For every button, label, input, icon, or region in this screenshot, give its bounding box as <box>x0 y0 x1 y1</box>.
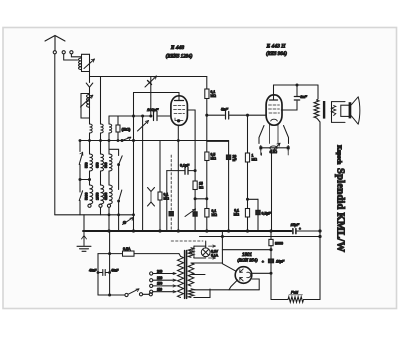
svg-text:6200: 6200 <box>104 192 108 200</box>
coupling arrow chevron <box>86 83 93 87</box>
coil bottom terminals <box>88 204 91 207</box>
svg-text:(RES 964): (RES 964) <box>266 52 287 57</box>
wire L2 to coil bank <box>89 107 91 124</box>
svg-text:0,1A: 0,1A <box>211 254 219 258</box>
svg-text:10μF: 10μF <box>276 260 285 264</box>
svg-text:E 448: E 448 <box>170 45 184 51</box>
wire x109.6 mains2 <box>109 231 111 295</box>
wire 8nF branch <box>281 85 297 110</box>
svg-text:Kapsch: Kapsch <box>336 145 342 165</box>
svg-text:MΩ: MΩ <box>211 157 217 161</box>
wire top feed horizontal y76.5 <box>90 76 207 78</box>
variable cap arrow C1 <box>145 76 157 87</box>
wire x258 <box>257 199 259 231</box>
svg-text:40nF: 40nF <box>89 269 97 273</box>
svg-text:kΩ: kΩ <box>199 186 204 190</box>
wire col gaps row2-row3 <box>90 171 110 185</box>
resistor on x160 <box>158 192 162 200</box>
wire y198.8 link <box>195 198 207 200</box>
svg-text:MΩ: MΩ <box>234 213 240 217</box>
wire terminal stubs <box>64 54 82 60</box>
speaker horn flare <box>351 97 360 124</box>
variable arrow L2 <box>81 95 93 107</box>
svg-text:240: 240 <box>157 269 163 273</box>
wire L1 top to spine <box>82 54 90 58</box>
capacitor 0,1uF cathode <box>185 167 188 174</box>
svg-text:8000: 8000 <box>275 242 283 246</box>
capacitor 8nF <box>294 97 299 101</box>
node dots x133.5 <box>133 115 135 117</box>
wire second bus y236.5 <box>200 236 321 238</box>
wire V2 plate top <box>274 85 319 95</box>
wire y115 coupling line <box>207 114 266 116</box>
svg-text:6 kΩ: 6 kΩ <box>270 150 278 154</box>
coil bank row2 <box>90 154 93 171</box>
variable cap arrow C2 <box>138 121 149 132</box>
wire y141.3 <box>207 140 229 142</box>
wire grid line y92.5 <box>134 93 180 97</box>
primary taps <box>153 274 176 292</box>
resistor 8000 <box>270 232 272 300</box>
wire x160 screen divider <box>159 141 161 232</box>
svg-text:0,5A: 0,5A <box>123 247 131 251</box>
wire col2 riser <box>100 77 102 125</box>
svg-text:Feld: Feld <box>291 291 299 295</box>
wire ground drop <box>83 215 85 231</box>
padder element chevrons <box>148 188 155 207</box>
svg-text:0,1μF: 0,1μF <box>180 164 190 168</box>
wire x142.6 <box>142 116 144 231</box>
capacitor 15uF electrolytic <box>293 229 296 234</box>
capacitor 0,5uF <box>256 210 260 214</box>
capacitor 100pF <box>154 112 158 121</box>
capacitor 10nF <box>226 155 230 160</box>
potentiometer 6k hum <box>261 147 288 149</box>
mains switch <box>98 294 125 296</box>
coil bank row1 <box>90 124 93 133</box>
svg-text:900: 900 <box>104 162 108 168</box>
svg-text:MΩ: MΩ <box>212 213 218 217</box>
fuse 0,5A <box>123 251 135 256</box>
resistor chain x207 top <box>206 77 208 90</box>
svg-text:40nF: 40nF <box>111 269 119 273</box>
secondary HT <box>188 263 194 286</box>
svg-text:(RGN 354): (RGN 354) <box>237 258 258 263</box>
wave switch chain x118.6 <box>109 149 119 231</box>
antenna terminal circle <box>53 51 56 54</box>
svg-text:8nF: 8nF <box>300 95 307 99</box>
antenna <box>45 36 65 51</box>
svg-text:5nF: 5nF <box>221 107 228 112</box>
svg-text:220: 220 <box>157 276 163 280</box>
secondary rect heater <box>188 289 194 298</box>
power transformer primary <box>178 256 184 297</box>
wire x98 mains <box>97 254 99 295</box>
wire y140.5 AVC line <box>79 140 229 142</box>
wire x166.8 cathode return <box>166 171 168 231</box>
tube V1 E448 <box>171 96 188 126</box>
tube V2 E443H <box>266 95 282 125</box>
terminal circles <box>62 51 65 54</box>
svg-text:550: 550 <box>85 162 89 168</box>
variable arrow L1 <box>84 59 95 69</box>
wire y114 to V2 grid <box>265 114 267 117</box>
wire V1 plate to screen chain <box>188 110 196 231</box>
speaker voice coil zigzag <box>331 106 335 116</box>
tube V2 base skirt <box>259 126 289 144</box>
resistor screen feed <box>193 181 197 190</box>
wire x247.5 grid2 <box>247 115 249 231</box>
svg-text:110: 110 <box>157 288 162 292</box>
transformer core <box>185 251 187 299</box>
wire L1 bottom to spine <box>82 70 90 72</box>
output transformer core <box>323 101 325 119</box>
line cap y272.5 <box>98 272 110 274</box>
resistor AGC <box>245 209 249 218</box>
L2 frame <box>81 94 90 119</box>
svg-text:nF: nF <box>233 158 237 162</box>
resistor R grid <box>116 125 120 132</box>
wire V1 cathode drop <box>177 125 179 231</box>
bus node dots <box>108 230 110 232</box>
wire y170.6 cathode cap line <box>167 170 195 172</box>
output transformer primary <box>317 85 319 100</box>
lamp stubs right heaters <box>209 246 216 258</box>
dashed link horizontal <box>171 240 203 242</box>
wire bus to x320 <box>297 230 320 232</box>
coil bank row3 <box>90 185 93 204</box>
svg-text:E 443 H: E 443 H <box>266 44 287 50</box>
switch arrow near bus <box>185 209 196 217</box>
wire x228.6 <box>228 141 230 232</box>
wire x320 main right riser <box>319 122 321 300</box>
band switch blades left <box>79 141 81 152</box>
coil L1 antenna <box>78 58 81 70</box>
svg-text:+: + <box>299 227 301 231</box>
wire y116 line <box>109 115 171 117</box>
svg-text:100pF: 100pF <box>147 107 159 112</box>
switch arrow fuse left <box>123 218 134 225</box>
svg-text:150: 150 <box>157 282 163 286</box>
ground symbol <box>83 231 85 246</box>
svg-text:MΩ: MΩ <box>252 158 258 162</box>
junction stub mark <box>261 153 263 155</box>
capacitor trimmer at bus <box>193 212 197 216</box>
speaker coupling box <box>341 105 350 116</box>
capacitor 5nF <box>226 112 229 120</box>
wire y214 <box>55 214 134 216</box>
secondary heater top <box>188 248 194 258</box>
rectifier V3 1801 <box>235 267 252 284</box>
main bus <box>83 230 291 232</box>
svg-text:(1kΩ): (1kΩ) <box>122 128 131 132</box>
resistor 1M grid2 <box>245 153 249 162</box>
wire varcap riser x150.8 <box>150 77 152 117</box>
svg-text:5000: 5000 <box>85 192 89 200</box>
wire x133.5 <box>133 93 135 232</box>
mains fuse line <box>98 253 179 255</box>
wire antenna down lead <box>54 54 56 215</box>
speaker magnet bracket <box>332 102 346 123</box>
capacitor on dashed <box>169 212 173 216</box>
wire pot wiper down <box>271 150 273 231</box>
svg-text:0,5μF: 0,5μF <box>262 212 272 216</box>
pilot lamp <box>201 248 210 257</box>
wire spine x89.5 <box>89 54 91 82</box>
rectifier wires <box>221 231 223 250</box>
lamp bracket <box>194 246 206 258</box>
svg-text:1050: 1050 <box>96 192 100 200</box>
svg-text:(RENS 1284): (RENS 1284) <box>166 55 193 60</box>
svg-text:650: 650 <box>96 162 100 168</box>
speaker horn bar <box>349 102 352 118</box>
capacitor 10uF <box>268 259 273 263</box>
wire y199.3 <box>248 198 259 200</box>
svg-text:Splendid KML/W: Splendid KML/W <box>335 168 346 253</box>
wire col gaps row1-row2 <box>90 133 110 154</box>
svg-text:MΩ: MΩ <box>211 94 217 98</box>
coil L2 <box>86 95 89 108</box>
switch blade w <box>122 137 131 140</box>
dashed tuning link vertical <box>170 155 172 230</box>
secondary tap wires <box>193 246 195 258</box>
